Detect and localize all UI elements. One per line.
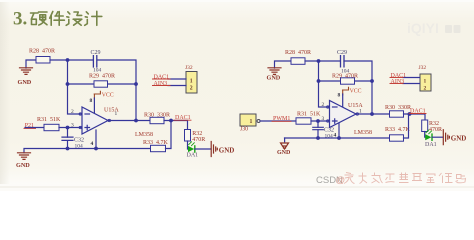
svg-text:GND: GND bbox=[267, 75, 281, 82]
connector J32 (right circuit) bbox=[420, 74, 431, 92]
op-amp U15A bbox=[79, 107, 110, 134]
capacitor C29 (right circuit) bbox=[341, 56, 345, 67]
power VCC bbox=[94, 91, 114, 113]
resistor R28 bbox=[36, 57, 50, 64]
wire: R30 to corner, down to R32 bbox=[164, 121, 188, 131]
junction at (67.5,127.5) bbox=[66, 126, 70, 130]
net label AIN3 (J32 right) bbox=[390, 79, 404, 85]
wire: pin4 down to bottom rail (right circuit) bbox=[338, 123, 340, 138]
resistor R33 (right circuit) bbox=[390, 135, 404, 141]
connector J32 (left circuit) bbox=[186, 72, 197, 94]
svg-text:J32: J32 bbox=[419, 65, 427, 71]
wire: R29 rail left bbox=[68, 83, 95, 85]
junction at (318.5,61) bbox=[317, 59, 321, 63]
resistor R32 (vertical, right circuit) bbox=[422, 120, 428, 132]
wire: R28 right to C29 left (right circuit) bbox=[305, 60, 340, 62]
title char: ying bbox=[31, 12, 48, 25]
LED DA1 (right circuit) bbox=[425, 130, 432, 140]
LED DA1 bbox=[188, 142, 195, 152]
junction at (318,121) bbox=[316, 119, 320, 123]
ground GND (top-left) bbox=[20, 68, 33, 75]
svg-text:1: 1 bbox=[190, 79, 193, 85]
wire: R33 right up to DAC1 node bbox=[166, 121, 172, 149]
svg-text:2: 2 bbox=[71, 109, 74, 115]
wire: bottom rail bbox=[24, 149, 151, 153]
svg-text:C29: C29 bbox=[91, 50, 101, 56]
junction at (318,138) bbox=[316, 136, 320, 140]
slide title: 3. (hardware design) bbox=[13, 9, 102, 30]
wire: R32 down to LED corner (right circuit) bbox=[424, 132, 427, 138]
ground GND (rotated, right circuit) bbox=[443, 130, 449, 145]
svg-text:1: 1 bbox=[250, 119, 253, 125]
wire: J32 pin1 bbox=[168, 78, 186, 80]
svg-text:J30: J30 bbox=[240, 127, 248, 133]
wire: DA1 to GND (rotated) bbox=[195, 148, 211, 150]
svg-text:470R: 470R bbox=[192, 137, 205, 143]
junction at (372,114) bbox=[370, 112, 374, 116]
title char: ji bbox=[85, 11, 102, 25]
junction at (372,81) bbox=[370, 79, 374, 83]
svg-text:VCC: VCC bbox=[350, 88, 362, 94]
ground GND (bottom-left) bbox=[18, 153, 31, 160]
power VCC (right circuit) bbox=[343, 87, 362, 107]
wire: feedback vertical to pin2 (right circuit) bbox=[319, 61, 330, 107]
net label DAC1 (right circuit) bbox=[409, 109, 426, 115]
net label DAC1 (left circuit) bbox=[174, 115, 191, 121]
resistor R30 bbox=[150, 117, 164, 123]
net label PWM1 bbox=[272, 116, 291, 122]
svg-text:J32: J32 bbox=[185, 65, 193, 71]
ground GND (right of DA1, rotated) bbox=[211, 142, 217, 157]
svg-text:2: 2 bbox=[322, 102, 325, 108]
wire: J32 pin2 (right circuit) bbox=[403, 83, 420, 85]
svg-text:3.: 3. bbox=[13, 9, 27, 30]
wire: op-amp output to R30 (right circuit) bbox=[356, 113, 390, 115]
wire: GND stub (right circuit bottom) bbox=[284, 138, 286, 142]
wire: DA1 to GND (right circuit) bbox=[432, 136, 443, 138]
op-amp U15A (right circuit) bbox=[327, 101, 359, 128]
junction at (136,120.5) bbox=[134, 119, 138, 123]
junction at (171,120.5) bbox=[169, 119, 173, 123]
junction at (339,138) bbox=[337, 136, 341, 140]
net label DAC1 (J32 right) bbox=[390, 73, 406, 79]
chinese watermark glyphs bbox=[344, 173, 466, 184]
svg-text:2: 2 bbox=[424, 86, 427, 92]
wire: R29 rail right bbox=[108, 83, 137, 85]
wire: R28 right to C29 left bbox=[50, 59, 92, 61]
resistor R29 (right circuit) bbox=[341, 78, 355, 84]
svg-text:R28 470R: R28 470R bbox=[29, 49, 55, 55]
resistor R33 bbox=[151, 145, 166, 151]
junction at (67.5,84) bbox=[66, 82, 70, 86]
junction at (318.5,81) bbox=[317, 79, 321, 83]
svg-text:8: 8 bbox=[90, 98, 93, 104]
CSDN watermark bbox=[316, 173, 466, 187]
resistor R30 (right circuit) bbox=[390, 111, 404, 117]
capacitor C32 bbox=[62, 128, 73, 149]
svg-text:C29: C29 bbox=[337, 50, 347, 56]
ground GND (arrow style, right circuit) bbox=[281, 143, 289, 149]
slide background bbox=[0, 0, 474, 191]
wire: R33 right up to DAC1 node (right circuit) bbox=[404, 114, 409, 138]
svg-text:R30 330R: R30 330R bbox=[144, 113, 170, 119]
junction at (67.5,148.5) bbox=[66, 147, 70, 151]
wire: R31 to pin3 bbox=[59, 127, 82, 129]
wire: R32 down to LED corner bbox=[187, 141, 190, 149]
wire: bottom rail (right circuit) bbox=[285, 137, 390, 139]
svg-text:8: 8 bbox=[338, 92, 341, 98]
svg-text:GND: GND bbox=[219, 146, 235, 154]
junction at (96,148.5) bbox=[94, 147, 98, 151]
svg-text:R33 4.7K: R33 4.7K bbox=[385, 127, 411, 133]
junction at (408.5,114) bbox=[408, 112, 412, 116]
capacitor C32 (right circuit) bbox=[313, 121, 324, 138]
wire: P21 to R31 bbox=[25, 127, 44, 129]
svg-text:R28 470R: R28 470R bbox=[285, 50, 311, 56]
net label P21 bbox=[24, 123, 36, 129]
wire: C29 right to feedback corner, down to output node bbox=[98, 60, 136, 121]
svg-text:GND: GND bbox=[277, 150, 291, 156]
svg-text:R31 51K: R31 51K bbox=[297, 112, 321, 118]
svg-text:R29 470R: R29 470R bbox=[89, 73, 115, 79]
wire: GND to R28 left (right circuit) bbox=[275, 61, 292, 68]
svg-text:4: 4 bbox=[91, 141, 94, 147]
net label DAC1 (J32) bbox=[153, 74, 171, 80]
svg-text:2: 2 bbox=[190, 86, 193, 92]
wire: J32 pin2 bbox=[168, 85, 186, 87]
svg-text:VCC: VCC bbox=[102, 92, 114, 98]
wire: op-amp output to R30 bbox=[108, 120, 150, 122]
ground GND (top, right circuit) bbox=[268, 68, 281, 75]
wire: R30 to corner, down to R32 (right circuit) bbox=[404, 114, 426, 120]
svg-text:R29 470R: R29 470R bbox=[332, 74, 358, 80]
connector J30 bbox=[240, 114, 260, 126]
svg-text:1: 1 bbox=[424, 79, 427, 85]
svg-text:R30 330R: R30 330R bbox=[385, 105, 411, 111]
resistor R31 bbox=[44, 124, 59, 130]
svg-text:GND: GND bbox=[16, 162, 30, 169]
svg-text:R31 51K: R31 51K bbox=[37, 117, 61, 123]
wire: R29 rail right (right circuit) bbox=[355, 80, 373, 82]
wire: R31 to pin3 (right circuit) bbox=[311, 120, 330, 122]
svg-text:DA1: DA1 bbox=[187, 153, 199, 159]
svg-text:LM358: LM358 bbox=[354, 130, 372, 136]
net label AIN3 (J32) bbox=[153, 81, 171, 87]
wire: feedback left vertical down to pin2 bbox=[68, 60, 82, 114]
capacitor C29 bbox=[93, 56, 96, 67]
svg-text:LM358: LM358 bbox=[135, 132, 153, 138]
svg-text:1: 1 bbox=[115, 111, 118, 117]
iQIYI watermark bbox=[407, 20, 461, 36]
svg-text:GND: GND bbox=[451, 135, 467, 143]
resistor R31 (right circuit) bbox=[296, 118, 311, 124]
svg-text:iQIYI: iQIYI bbox=[407, 20, 439, 36]
resistor R28 (right circuit) bbox=[291, 58, 305, 65]
resistor R32 (vertical) bbox=[185, 130, 191, 142]
svg-text:GND: GND bbox=[18, 79, 32, 86]
wire: J30 to R31 (right circuit) bbox=[260, 120, 296, 122]
wire: C29 right to corner, down to output node (right circuit) bbox=[344, 61, 372, 114]
junction at (67.5,60) bbox=[66, 58, 70, 62]
wire: pin4 down to bottom rail bbox=[95, 130, 97, 149]
svg-text:@: @ bbox=[336, 175, 346, 186]
junction at (136,84) bbox=[134, 82, 138, 86]
wire: J32 pin1 (right circuit) bbox=[403, 77, 420, 79]
title char: jian bbox=[50, 12, 65, 26]
wire: R29 rail left (right circuit) bbox=[319, 80, 341, 82]
wire: GND to R28 left bbox=[26, 60, 36, 68]
resistor R29 bbox=[94, 81, 108, 87]
title char: she bbox=[66, 12, 82, 26]
svg-text:DA1: DA1 bbox=[425, 142, 437, 148]
